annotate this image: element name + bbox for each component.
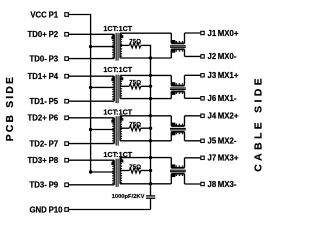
wire choke L2 to J6 bbox=[185, 97, 201, 99]
wire GND P10 to capacitor bbox=[68, 209, 150, 211]
choke L2 left risers bbox=[170, 75, 172, 85]
resistor R4 75 ohm bbox=[129, 168, 141, 173]
svg-text:MX0+: MX0+ bbox=[218, 29, 239, 38]
junction rail / T2 secondary top wire bbox=[149, 74, 152, 77]
choke L2 top polarity dot bbox=[172, 82, 176, 85]
wire P6 to transformer T3 primary top bbox=[68, 117, 114, 119]
transformer T2 primary winding bbox=[113, 76, 115, 101]
choke L2 right risers bbox=[184, 75, 186, 85]
junction VCC rail / T3 center tap bbox=[89, 128, 92, 131]
wire T4 secondary bottom to choke L4 bbox=[120, 183, 171, 185]
transformer T2 secondary winding bbox=[119, 75, 121, 98]
svg-text:TD3+: TD3+ bbox=[28, 156, 48, 165]
junction rail / T3 secondary top wire bbox=[149, 114, 152, 117]
wire choke L4 to J8 bbox=[185, 183, 201, 185]
svg-text:P6: P6 bbox=[49, 114, 59, 123]
svg-text:MX3+: MX3+ bbox=[218, 154, 239, 163]
svg-text:75Ω: 75Ω bbox=[129, 164, 141, 171]
pin P1 (VCC P1) bbox=[30, 10, 68, 19]
svg-text:MX2-: MX2- bbox=[218, 137, 237, 146]
svg-text:MX3-: MX3- bbox=[218, 180, 237, 189]
wire T3 secondary top to choke L3 bbox=[120, 115, 171, 117]
node channel 3 bbox=[68, 108, 200, 146]
transformer T3 secondary winding bbox=[119, 116, 121, 141]
wire choke L1 to J1 bbox=[185, 32, 201, 34]
wire choke L3 to J5 bbox=[185, 140, 201, 142]
junction rail / T1 secondary bottom wire bbox=[149, 56, 152, 59]
wire P2 to transformer T1 primary top bbox=[68, 33, 114, 35]
junction rail / T4 secondary bottom wire bbox=[149, 182, 152, 185]
svg-text:TD2-: TD2- bbox=[29, 139, 47, 148]
choke L1 bottom winding bbox=[171, 48, 184, 50]
wire T2 secondary center tap to resistor bbox=[120, 85, 129, 87]
wire P9 to transformer T4 primary bottom bbox=[68, 184, 114, 186]
wire resistor R3 to termination rail bbox=[141, 127, 151, 129]
junction rail / T4 secondary top wire bbox=[149, 156, 152, 159]
wire VCC rail to T4 primary center tap bbox=[91, 171, 115, 173]
choke L4 top winding bbox=[171, 167, 184, 169]
wire choke L1 to J2 bbox=[185, 55, 201, 57]
transformer T1 secondary polarity dot bbox=[120, 35, 123, 38]
choke L3 bottom polarity dot bbox=[172, 132, 176, 135]
wire VCC rail to T3 primary center tap bbox=[91, 129, 115, 131]
wire resistor R1 to termination rail bbox=[141, 44, 151, 46]
svg-text:P5: P5 bbox=[49, 97, 59, 106]
pin P3 (TD0- P3) bbox=[29, 54, 68, 63]
choke L4 core bbox=[170, 169, 186, 171]
choke L2 core bbox=[170, 87, 186, 89]
choke L2 bottom polarity dot bbox=[172, 92, 176, 95]
svg-text:75Ω: 75Ω bbox=[129, 121, 141, 128]
transformer T2 core bbox=[115, 75, 117, 104]
svg-text:P10: P10 bbox=[49, 205, 64, 214]
wire T3 secondary bottom to choke L3 bbox=[120, 140, 171, 142]
choke L4 left risers bbox=[170, 158, 172, 168]
pin P9 (TD3- P9) bbox=[29, 181, 68, 190]
wire VCC rail to T1 primary center tap bbox=[91, 46, 115, 48]
wire capacitor bottom lead to GND line bbox=[150, 198, 152, 209]
transformer T3 primary winding bbox=[113, 118, 115, 144]
transformer T4 secondary winding bbox=[119, 158, 121, 184]
wire VCC rail (vertical) bbox=[90, 14, 92, 172]
svg-text:P7: P7 bbox=[49, 139, 59, 148]
node channel 1 bbox=[68, 24, 200, 61]
wire resistor R4 to termination rail bbox=[141, 170, 151, 172]
choke L4 bottom winding bbox=[171, 173, 184, 175]
choke L3 left risers bbox=[170, 116, 172, 126]
transformer T4 core bbox=[115, 159, 117, 187]
pin J2 (J2 MX0-) bbox=[201, 52, 237, 61]
transformer T4 primary winding bbox=[113, 160, 115, 185]
wire T1 secondary bottom to choke L1 bbox=[120, 57, 171, 59]
pin P2 (TD0+ P2) bbox=[28, 30, 69, 39]
svg-text:MX0-: MX0- bbox=[218, 52, 237, 61]
svg-text:CABLE SIDE: CABLE SIDE bbox=[253, 75, 265, 172]
choke L4 right risers bbox=[184, 158, 186, 168]
wire P4 to transformer T2 primary top bbox=[68, 75, 114, 77]
transformer T1 primary winding bbox=[113, 34, 115, 58]
junction rail / resistor R3 bbox=[149, 127, 152, 130]
choke L4 bottom polarity dot bbox=[172, 174, 176, 177]
wire T4 secondary top to choke L4 bbox=[120, 157, 171, 159]
transformer T4 primary polarity dot bbox=[111, 162, 114, 165]
pin J6 (J6 MX1-) bbox=[201, 94, 237, 103]
junction VCC rail / T1 center tap bbox=[89, 45, 92, 48]
svg-text:P8: P8 bbox=[49, 156, 59, 165]
junction rail / resistor R4 bbox=[149, 169, 152, 172]
junction VCC rail / T4 center tap bbox=[89, 170, 92, 173]
choke L1 top winding bbox=[171, 42, 184, 44]
choke L2 bottom winding bbox=[171, 91, 184, 93]
choke L3 bottom winding bbox=[171, 131, 184, 133]
transformer T3 core bbox=[115, 116, 117, 145]
resistor R3 75 ohm bbox=[129, 126, 141, 131]
svg-text:P4: P4 bbox=[49, 72, 59, 81]
svg-text:P2: P2 bbox=[49, 30, 59, 39]
transformer T2 secondary polarity dot bbox=[120, 77, 123, 80]
wire VCC rail to T2 primary center tap bbox=[91, 86, 115, 88]
pin J3 (J3 MX1+) bbox=[201, 71, 239, 80]
node channel 4 bbox=[68, 150, 200, 187]
svg-text:MX2+: MX2+ bbox=[218, 112, 239, 121]
svg-text:J5: J5 bbox=[208, 137, 217, 146]
transformer T1 secondary winding bbox=[119, 33, 121, 58]
choke L1 top polarity dot bbox=[172, 40, 176, 43]
wire resistor R2 to termination rail bbox=[141, 85, 151, 87]
choke L2 top winding bbox=[171, 85, 184, 87]
wire P8 to transformer T4 primary top bbox=[68, 159, 114, 161]
pin J5 (J5 MX2-) bbox=[201, 137, 237, 146]
wire T2 secondary bottom to choke L2 bbox=[120, 98, 171, 100]
svg-text:J6: J6 bbox=[208, 94, 217, 103]
svg-text:J4: J4 bbox=[208, 112, 217, 121]
svg-text:TD0+: TD0+ bbox=[28, 30, 48, 39]
svg-text:P9: P9 bbox=[49, 181, 59, 190]
svg-text:TD0-: TD0- bbox=[29, 54, 47, 63]
transformer T3 primary polarity dot bbox=[111, 120, 114, 123]
node channel 2 bbox=[68, 65, 200, 103]
svg-text:P1: P1 bbox=[49, 10, 59, 19]
choke L1 left risers bbox=[170, 33, 172, 43]
wire T1 secondary top to choke L1 bbox=[120, 32, 171, 34]
svg-text:J8: J8 bbox=[208, 180, 217, 189]
junction rail / T2 secondary bottom wire bbox=[149, 97, 152, 100]
choke L1 core bbox=[170, 45, 186, 47]
wire common termination rail (vertical) bbox=[150, 45, 152, 196]
value label 1000pF/2KV bbox=[112, 194, 145, 200]
resistor R1 75 ohm bbox=[129, 43, 141, 48]
pin P10 (GND P10) bbox=[29, 205, 68, 214]
pin P6 (TD2+ P6) bbox=[28, 114, 69, 123]
svg-text:J3: J3 bbox=[208, 71, 217, 80]
capacitor C1 1000pF/2KV plates bbox=[146, 196, 155, 198]
transformer T2 primary polarity dot bbox=[111, 78, 114, 81]
pin P7 (TD2- P7) bbox=[29, 139, 68, 148]
wire P5 to transformer T2 primary bottom bbox=[68, 100, 114, 102]
wire T4 secondary center tap to resistor bbox=[120, 170, 129, 172]
choke L3 top polarity dot bbox=[172, 123, 176, 126]
wire choke L4 to J7 bbox=[185, 157, 201, 159]
svg-text:MX1-: MX1- bbox=[218, 94, 237, 103]
junction VCC rail / T2 center tap bbox=[89, 86, 92, 89]
wire VCC P1 to rail bbox=[68, 14, 90, 16]
svg-text:75Ω: 75Ω bbox=[129, 79, 141, 86]
svg-text:VCC: VCC bbox=[30, 10, 47, 19]
wire T2 secondary top to choke L2 bbox=[120, 74, 171, 76]
choke L1 right risers bbox=[184, 33, 186, 43]
pin P5 (TD1- P5) bbox=[29, 97, 68, 106]
svg-text:TD1+: TD1+ bbox=[28, 72, 48, 81]
pin P4 (TD1+ P4) bbox=[28, 72, 69, 81]
svg-text:P3: P3 bbox=[49, 54, 59, 63]
svg-text:TD2+: TD2+ bbox=[28, 114, 48, 123]
transformer T1 primary polarity dot bbox=[111, 36, 114, 39]
svg-text:TD3-: TD3- bbox=[29, 181, 47, 190]
pin J7 (J7 MX3+) bbox=[201, 154, 239, 163]
resistor R2 75 ohm bbox=[129, 84, 141, 89]
wire T3 secondary center tap to resistor bbox=[120, 127, 129, 129]
transformer T1 core bbox=[115, 33, 117, 61]
label CABLE SIDE (right, vertical) bbox=[253, 75, 265, 172]
pin J4 (J4 MX2+) bbox=[201, 112, 239, 121]
wire P3 to transformer T1 primary bottom bbox=[68, 58, 114, 60]
wire choke L2 to J3 bbox=[185, 74, 201, 76]
svg-text:75Ω: 75Ω bbox=[129, 39, 141, 46]
svg-text:J7: J7 bbox=[208, 154, 217, 163]
svg-text:1CT:1CT: 1CT:1CT bbox=[103, 65, 132, 74]
transformer T4 secondary polarity dot bbox=[120, 160, 123, 163]
junction rail / resistor R2 bbox=[149, 85, 152, 88]
svg-text:TD1-: TD1- bbox=[29, 97, 47, 106]
choke L1 bottom polarity dot bbox=[172, 49, 176, 52]
wire T1 secondary center tap to resistor bbox=[120, 44, 129, 46]
svg-text:PCB SIDE: PCB SIDE bbox=[4, 75, 16, 141]
pin J8 (J8 MX3-) bbox=[201, 180, 237, 189]
svg-text:1000pF/2KV: 1000pF/2KV bbox=[112, 194, 145, 200]
wire P7 to transformer T3 primary bottom bbox=[68, 143, 114, 145]
wire choke L3 to J4 bbox=[185, 115, 201, 117]
transformer T3 secondary polarity dot bbox=[120, 118, 123, 121]
pin P8 (TD3+ P8) bbox=[28, 156, 69, 165]
label PCB SIDE (left, vertical) bbox=[4, 75, 16, 141]
svg-text:J1: J1 bbox=[208, 29, 217, 38]
choke L4 top polarity dot bbox=[172, 164, 176, 167]
junction rail / T3 secondary bottom wire bbox=[149, 139, 152, 142]
svg-text:1CT:1CT: 1CT:1CT bbox=[103, 24, 132, 33]
choke L3 top winding bbox=[171, 125, 184, 127]
svg-text:GND: GND bbox=[29, 205, 47, 214]
pin J1 (J1 MX0+) bbox=[201, 29, 239, 38]
svg-text:MX1+: MX1+ bbox=[218, 71, 239, 80]
choke L3 right risers bbox=[184, 116, 186, 126]
choke L3 core bbox=[170, 127, 186, 129]
svg-text:J2: J2 bbox=[208, 52, 217, 61]
